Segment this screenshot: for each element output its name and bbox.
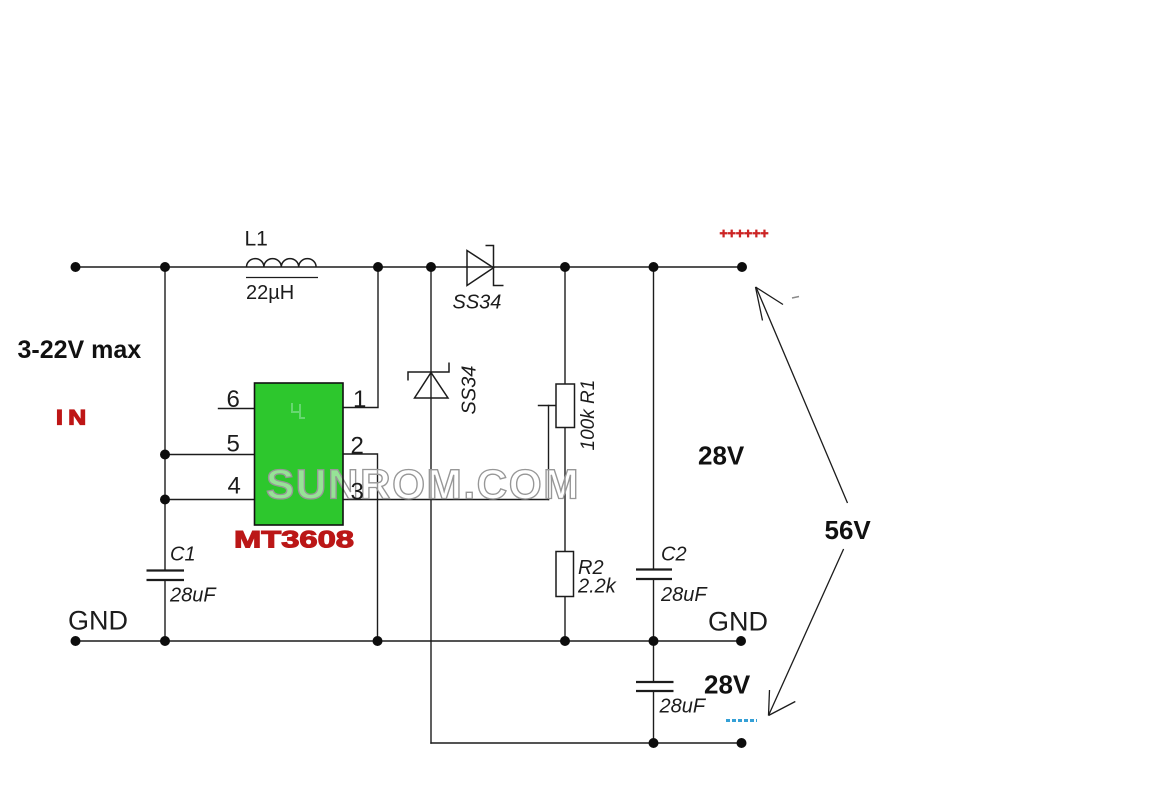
arrow upper 56V pointer [756, 287, 848, 503]
node input + terminal [71, 262, 81, 272]
svg-text:28uF: 28uF [169, 585, 217, 607]
svg-text:GND: GND [68, 606, 128, 636]
wire pin4 stub [165, 499, 255, 501]
node junction dots [71, 262, 748, 748]
capacitor C3 (bottom 28uF) [636, 682, 674, 691]
wire pin3 feedback line [343, 499, 549, 501]
svg-text:2: 2 [351, 433, 364, 460]
wire pin5 stub [165, 454, 255, 456]
wire C2 branch lower [653, 580, 655, 642]
svg-text:SUNROM.COM: SUNROM.COM [266, 461, 580, 508]
node pin5 / left column [160, 450, 170, 460]
wire top rail VIN to VOUT+ [76, 266, 743, 268]
diode D2 SS34 vertical [408, 363, 449, 399]
svg-text:28V: 28V [698, 441, 745, 471]
capacitor C1 [147, 571, 185, 581]
node GND rail / pin2 [373, 636, 383, 646]
node top rail / left column [160, 262, 170, 272]
svg-text:4: 4 [228, 473, 241, 500]
svg-text:3: 3 [351, 479, 364, 506]
op-amp U1 MT3608 IC body [255, 383, 344, 525]
svg-text:C1: C1 [170, 544, 196, 566]
svg-text:2.2k: 2.2k [577, 576, 617, 598]
resistor R1 [556, 384, 575, 428]
svg-text:6: 6 [227, 386, 240, 413]
wire left input column x=165 lower segment below C1 [164, 581, 166, 642]
wire pin2 stub to ground [343, 454, 378, 641]
node GND rail / C2 [649, 636, 659, 646]
wire GND rail [76, 640, 742, 642]
wire R1 wiper tap [539, 405, 557, 407]
svg-text:100k R1: 100k R1 [578, 380, 599, 451]
resistor R2 [556, 552, 574, 597]
svg-text:C2: C2 [661, 544, 687, 566]
svg-text:5: 5 [227, 431, 240, 458]
svg-text:GND: GND [708, 607, 768, 637]
diode D1 SS34 horizontal [467, 246, 504, 286]
op-amp U1 MT3608 IC border [255, 383, 344, 525]
inductor L1 [246, 259, 318, 278]
svg-text:3-22V max: 3-22V max [18, 336, 142, 364]
svg-text:28V: 28V [704, 670, 751, 700]
wire R1 branch vertical x=565 [564, 267, 566, 641]
node pin4 / left column [160, 495, 170, 505]
node GND output terminal [736, 636, 746, 646]
svg-text:SS34: SS34 [453, 292, 502, 314]
svg-text:22µH: 22µH [246, 282, 294, 304]
node input - terminal [71, 636, 81, 646]
wire left input column x=165 upper segment [164, 267, 166, 570]
wire bottom output rail [431, 742, 742, 744]
stray mark dash [792, 297, 799, 299]
wire C3 branch lower [653, 692, 655, 744]
wire diode branch vertical x=431 [430, 267, 432, 743]
svg-text:++++++: ++++++ [720, 225, 769, 241]
node top rail / pin1 [373, 262, 383, 272]
wire C3 branch upper [653, 641, 655, 682]
node output - terminal [737, 738, 747, 748]
svg-text:28uF: 28uF [660, 584, 708, 606]
svg-text:56V: 56V [825, 515, 872, 545]
node top rail / diode branch [426, 262, 436, 272]
capacitor C2 [636, 570, 672, 580]
svg-text:L1: L1 [245, 228, 268, 251]
arrow lower 56V pointer [769, 549, 844, 716]
svg-text:SS34: SS34 [459, 366, 481, 415]
wire C2 branch upper [653, 267, 655, 569]
wire R1 wiper vertical [548, 406, 550, 500]
wire pin6 stub [219, 408, 255, 410]
node bottom rail / C3 [649, 738, 659, 748]
node top rail / R1 [560, 262, 570, 272]
svg-text:MT3608: MT3608 [234, 527, 354, 554]
node GND rail / R2 [560, 636, 570, 646]
svg-text:1: 1 [353, 386, 366, 413]
svg-text:28uF: 28uF [659, 696, 707, 718]
wire pin1 stub [343, 267, 378, 408]
svg-text:IN: IN [56, 405, 91, 429]
node top rail / C2 [649, 262, 659, 272]
node output + terminal [737, 262, 747, 272]
node GND rail / left column [160, 636, 170, 646]
